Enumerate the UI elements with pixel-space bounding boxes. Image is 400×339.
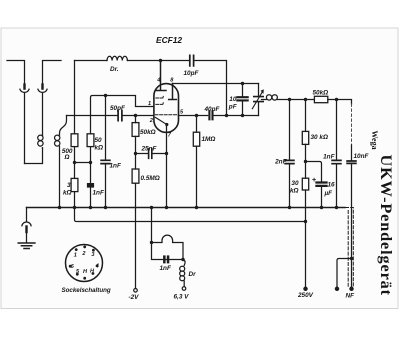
svg-text:Dr.: Dr.	[110, 66, 119, 73]
wire	[26, 232, 28, 242]
node bus1 / heater	[150, 206, 153, 209]
node grid2 line / 1M	[195, 114, 198, 117]
resistor 50k left	[87, 134, 94, 147]
node 500R / 3k	[73, 161, 76, 164]
capacitor 10pF shunt	[237, 97, 247, 100]
node 50k out / 1nF	[335, 98, 338, 101]
svg-text:30: 30	[291, 180, 299, 187]
antenna feeder left	[24, 93, 26, 163]
wire NF shield ground link	[337, 259, 352, 288]
svg-text:1nF: 1nF	[93, 190, 105, 197]
resistor 3k	[71, 178, 78, 191]
capacitor 1nF right	[332, 160, 341, 163]
node 50k / 1nF	[89, 161, 92, 164]
ground bus 1	[27, 207, 346, 209]
svg-text:250V: 250V	[297, 292, 314, 299]
plug arrow right	[41, 85, 43, 89]
node bus2 / 250V	[304, 220, 307, 223]
svg-text:kΩ: kΩ	[95, 145, 104, 152]
wire 1nF right column	[336, 100, 338, 160]
shield dashed right	[346, 208, 354, 288]
wire	[105, 164, 107, 207]
wire	[242, 102, 244, 116]
svg-text:1: 1	[74, 253, 77, 259]
variable capacitor C tank	[252, 84, 263, 116]
svg-text:10pF: 10pF	[184, 70, 200, 77]
svg-text:NF: NF	[346, 293, 356, 300]
wire 25nF branch left	[136, 153, 148, 155]
terminal 250V	[304, 287, 307, 290]
resistor 0.5M	[132, 169, 139, 183]
resistor 50k plate	[314, 96, 327, 102]
wire 2nF column	[289, 100, 291, 160]
tube ECF12 envelope	[154, 84, 179, 133]
svg-text:Sockelschaltung: Sockelschaltung	[62, 287, 111, 294]
shield dashed left	[347, 211, 349, 288]
wire	[196, 146, 198, 207]
wire	[289, 164, 291, 207]
capacitor 25nF	[149, 149, 152, 159]
wire bias -2V column	[135, 183, 137, 288]
wire g1 to tube pin2	[123, 115, 154, 117]
node bus1 / 1nF-r	[335, 206, 338, 209]
capacitor 1nF paper black	[87, 183, 94, 188]
choke Dr top	[107, 56, 127, 60]
wire	[183, 281, 185, 287]
node bus1 / 16uF	[320, 206, 323, 209]
wire 30k lower top	[305, 162, 307, 179]
wire top bus left segment	[75, 60, 108, 62]
resistor 50k left column top wire	[91, 96, 154, 134]
svg-text:25nF: 25nF	[141, 146, 158, 153]
wire	[74, 192, 76, 208]
wire	[321, 187, 323, 208]
terminal NF	[350, 287, 353, 290]
antenna arm right	[43, 61, 62, 88]
svg-text:2nF: 2nF	[274, 159, 287, 166]
resistor 1M	[193, 132, 199, 146]
node bus1 / 3k	[73, 206, 76, 209]
svg-text:30 kΩ: 30 kΩ	[311, 134, 328, 141]
node bus1 / L2	[58, 206, 61, 209]
svg-text:ECF12: ECF12	[156, 35, 182, 45]
node heater left	[150, 241, 153, 244]
capacitor 16uF electrolytic	[317, 183, 327, 186]
node grid1 line / 50k	[134, 114, 137, 117]
terminal NF shield	[335, 287, 338, 290]
node top-bus / pin4	[159, 59, 162, 62]
wire anode feed vertical x75	[74, 61, 76, 134]
wire node tie 162	[75, 162, 91, 164]
svg-text:1nF: 1nF	[160, 265, 172, 272]
node 25nF left	[134, 152, 137, 155]
capacitor 1nF heater	[163, 255, 169, 263]
wire	[351, 145, 353, 160]
resistor 500ohm	[71, 134, 78, 147]
wire grid line g1	[67, 115, 118, 117]
ground symbol	[18, 243, 35, 249]
plug cup right	[38, 89, 47, 92]
capacitor 40pF	[209, 111, 212, 119]
node grid2 line / bus-cap	[225, 114, 228, 117]
svg-text:Ω: Ω	[64, 154, 70, 161]
wire 25nF branch right	[153, 153, 167, 155]
resistor 30k lower	[302, 178, 308, 190]
antenna loop bottom wire	[25, 148, 43, 164]
wire 40pF to tank	[214, 115, 259, 117]
capacitor 2nF	[285, 160, 294, 163]
wire NF line	[351, 164, 353, 287]
capacitor 10pF shunt wire	[242, 84, 244, 97]
node 30k mid / 16uF	[304, 160, 307, 163]
tube grid dashes row2	[156, 103, 164, 105]
svg-text:-2V: -2V	[129, 294, 140, 301]
svg-text:50pF: 50pF	[110, 105, 126, 112]
node bus1 / 1nF	[89, 206, 92, 209]
wire 250V column	[305, 190, 307, 287]
tube cathode diagonal	[155, 117, 166, 124]
svg-text:10: 10	[229, 96, 237, 103]
wire cathode column	[166, 126, 168, 208]
capacitor 50pF	[118, 111, 122, 121]
wire	[328, 100, 352, 105]
svg-text:kΩ: kΩ	[63, 190, 72, 197]
socket circle	[66, 245, 103, 282]
node anode line / 10pF	[241, 82, 244, 85]
svg-text:0.5MΩ: 0.5MΩ	[141, 175, 160, 182]
terminal 6.3V	[182, 287, 186, 291]
svg-text:1nF: 1nF	[110, 163, 122, 170]
svg-text:16: 16	[328, 182, 336, 189]
antenna arm left	[7, 61, 25, 88]
wire 10nF column dashed upper	[351, 104, 353, 145]
wire pin5 to 40pF	[179, 115, 208, 117]
wire	[74, 147, 76, 179]
ground plug cup	[22, 222, 31, 226]
node NF shield tap	[350, 257, 353, 260]
svg-text:UKW-Pendelgerät: UKW-Pendelgerät	[377, 155, 395, 296]
capacitor 10nF	[347, 161, 356, 163]
socket pin dots	[75, 248, 78, 251]
node bus1 / 1nF-a	[104, 206, 107, 209]
svg-text:1MΩ: 1MΩ	[202, 136, 216, 143]
svg-text:+: +	[312, 175, 317, 184]
svg-text:Wega: Wega	[370, 131, 379, 150]
svg-text:Dr: Dr	[189, 271, 197, 278]
tube grid dashes row1	[156, 96, 164, 98]
terminal -2V	[134, 289, 138, 293]
wire	[90, 188, 92, 208]
wire 16uF branch	[306, 162, 322, 182]
tube anode pin8	[169, 84, 177, 100]
wire	[336, 164, 338, 207]
svg-text:6,3 V: 6,3 V	[174, 294, 190, 301]
plug cup left	[20, 89, 29, 92]
svg-text:µF: µF	[324, 190, 334, 197]
plug arrow left	[23, 85, 25, 89]
tube anode pin4	[155, 61, 166, 91]
wire	[90, 147, 92, 183]
resistor 30k upper	[302, 131, 308, 144]
capacitor 1nF a	[101, 160, 110, 163]
svg-text:kΩ: kΩ	[290, 188, 299, 195]
svg-text:50kΩ: 50kΩ	[140, 129, 156, 136]
svg-text:40pF: 40pF	[204, 106, 221, 113]
node line-A / 1nF	[104, 94, 107, 97]
wire 1nF-a column	[105, 96, 107, 160]
supply bus 2	[75, 208, 306, 222]
ground branch	[26, 208, 28, 222]
wire pin8 anode line	[173, 83, 259, 85]
wire	[135, 116, 137, 170]
node heater right	[181, 258, 184, 261]
svg-text:50kΩ: 50kΩ	[313, 90, 329, 97]
resistor 50k mid	[132, 123, 139, 137]
wire heater drop	[151, 208, 153, 243]
svg-text:pF: pF	[228, 104, 238, 111]
node bus1 / 1M	[195, 206, 198, 209]
svg-text:10nF: 10nF	[354, 153, 370, 160]
inductor L tank	[262, 95, 290, 100]
heater loop outline	[152, 235, 184, 259]
tube cathode dot	[165, 123, 168, 126]
node plate line / 30k	[304, 98, 307, 101]
tube grid dashes row3	[155, 114, 176, 116]
wire	[305, 144, 307, 161]
choke Dr heater	[180, 266, 185, 281]
wire 1M column	[196, 116, 198, 133]
ground plug arrow	[25, 227, 27, 233]
node bus1 / cathode	[165, 206, 168, 209]
node 25nF right / cathode	[165, 152, 168, 155]
svg-text:1nF: 1nF	[323, 154, 335, 161]
wire plate line to 50k	[290, 99, 315, 101]
wire heater to choke	[183, 260, 185, 266]
svg-text:1: 1	[148, 101, 151, 107]
wire top bus right segment	[195, 61, 227, 116]
node tank / 2nF	[288, 98, 291, 101]
svg-text:3: 3	[67, 182, 71, 189]
node bus1 / 2nF	[288, 206, 291, 209]
node grid2 line / 10pF	[241, 114, 244, 117]
antenna feeder right	[42, 93, 44, 135]
coupling coil secondary L2	[55, 116, 67, 208]
capacitor 10pF series	[190, 55, 194, 66]
wire 30k upper column	[305, 100, 307, 132]
svg-text:50: 50	[95, 137, 103, 144]
wire top bus mid segment	[127, 60, 188, 62]
coupling coil primary L1	[38, 135, 43, 148]
